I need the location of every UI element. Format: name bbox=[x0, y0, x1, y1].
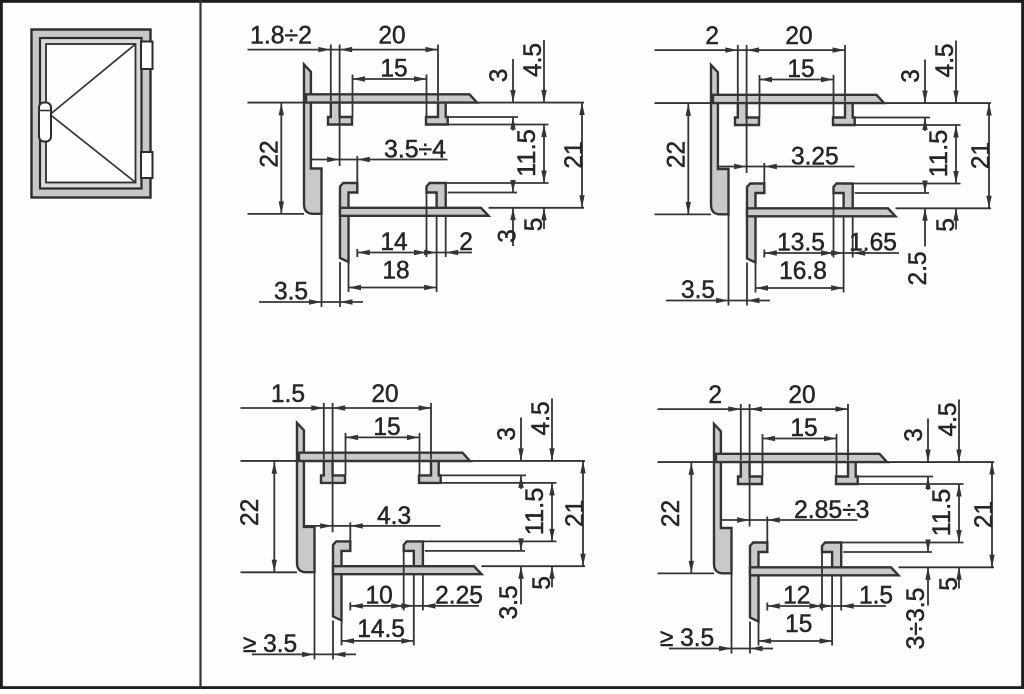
svg-text:16.8: 16.8 bbox=[779, 257, 827, 285]
Q2 top-right: top profile right hook bbox=[833, 102, 855, 125]
svg-text:4.5: 4.5 bbox=[934, 402, 962, 436]
Q3 bottom-left: dimension 11.5 bbox=[521, 483, 555, 542]
svg-text:22: 22 bbox=[663, 141, 691, 168]
Q4 bottom-right: dimension 4.5 bbox=[934, 400, 962, 497]
Q3 bottom-left: top profile right hook bbox=[419, 460, 441, 483]
Q3 bottom-left: dimension 3.5 (lip to rail gap) bbox=[495, 538, 524, 619]
Q1 top-left: bottom profile right hook bbox=[427, 183, 446, 209]
svg-text:13.5: 13.5 bbox=[777, 229, 825, 257]
Q1 top-left: top profile right hook bbox=[426, 102, 448, 125]
Q2 top-right: dimension 2.5 (lip to rail gap) bbox=[904, 181, 932, 286]
svg-text:3: 3 bbox=[900, 428, 928, 442]
svg-text:2.85÷3: 2.85÷3 bbox=[794, 496, 870, 524]
Q4 bottom-right: top profile left hook bbox=[738, 461, 762, 484]
svg-text:15: 15 bbox=[787, 55, 814, 83]
svg-text:3: 3 bbox=[897, 69, 925, 83]
svg-text:20: 20 bbox=[788, 381, 815, 409]
svg-text:21: 21 bbox=[967, 142, 995, 169]
Q3 bottom-left: bottom profile horizontal rail bbox=[333, 566, 482, 574]
svg-text:4.3: 4.3 bbox=[377, 502, 411, 530]
window icon: top hinge bbox=[141, 42, 153, 70]
svg-text:3.5: 3.5 bbox=[274, 278, 308, 306]
svg-text:15: 15 bbox=[785, 610, 812, 638]
Q2 top-right: dimension 2 and 20 (row 1) bbox=[655, 22, 846, 173]
Q2 top-right: dimension 5 (bottom right) bbox=[932, 208, 960, 231]
Q4 bottom-right: bottom profile left arm with hook cap bbox=[750, 543, 767, 622]
Q1 top-left: bottom profile horizontal rail bbox=[340, 208, 489, 216]
svg-text:3: 3 bbox=[485, 69, 513, 83]
Q4 bottom-right: dimension 22 (left height) bbox=[657, 462, 714, 573]
vertical divider line bbox=[199, 0, 201, 689]
svg-text:22: 22 bbox=[236, 499, 264, 526]
Q1 top-left: dimension 1.8÷2 and 20 (row 1) bbox=[248, 22, 439, 167]
Q3 bottom-left: dimension 3 (top hook gap) bbox=[493, 417, 524, 489]
Q1 top-left: dimension 5 (bottom right) bbox=[520, 208, 548, 231]
Q2 top-right: dimension 11.5 bbox=[925, 125, 959, 184]
window icon: outer frame bbox=[32, 30, 151, 198]
svg-text:4.5: 4.5 bbox=[931, 43, 959, 77]
Q2 top-right: dimension 3 (top hook gap) bbox=[897, 60, 928, 132]
svg-text:2.5: 2.5 bbox=[904, 251, 932, 285]
Q1 top-left: dimension 15 (top) bbox=[353, 55, 427, 118]
svg-text:1.65: 1.65 bbox=[849, 229, 897, 257]
svg-text:≥ 3.5: ≥ 3.5 bbox=[243, 630, 297, 658]
Q4 bottom-right: top profile horizontal rail bbox=[716, 454, 887, 462]
svg-text:14: 14 bbox=[380, 228, 407, 256]
svg-text:18: 18 bbox=[382, 257, 409, 285]
Q4 bottom-right: dimension 15 bbox=[759, 610, 833, 646]
Q3 bottom-left: dimension 14.5 bbox=[342, 615, 414, 646]
window icon: bottom hinge bbox=[141, 152, 153, 178]
svg-text:22: 22 bbox=[657, 500, 685, 527]
Q1 top-left: extension lines right side bbox=[306, 103, 584, 208]
Q2 top-right: left glazing strip profile bbox=[711, 65, 729, 214]
svg-text:1.8÷2: 1.8÷2 bbox=[250, 22, 312, 50]
Q1 top-left: dimension 3.5÷4 (middle gap) bbox=[311, 136, 448, 184]
svg-text:5: 5 bbox=[932, 218, 960, 232]
Q1 top-left: top profile left hook bbox=[328, 102, 352, 125]
svg-text:3: 3 bbox=[494, 229, 522, 243]
Q1 top-left: dimension 3 (lip to rail gap) bbox=[494, 180, 522, 246]
Q2 top-right: top profile horizontal rail bbox=[713, 95, 884, 103]
svg-text:22: 22 bbox=[256, 140, 284, 167]
Q3 bottom-left: left glazing strip profile bbox=[297, 423, 315, 572]
svg-text:11.5: 11.5 bbox=[513, 129, 541, 177]
Q1 top-left: dimension 4.5 bbox=[519, 40, 547, 137]
svg-text:3.5: 3.5 bbox=[495, 585, 523, 619]
svg-text:2: 2 bbox=[459, 228, 473, 256]
svg-text:2: 2 bbox=[708, 381, 722, 409]
Q2 top-right: dimension 15 (top) bbox=[760, 55, 834, 118]
Q2 top-right: dimensions 13.5 and 1.65 bbox=[764, 194, 899, 293]
svg-text:2: 2 bbox=[705, 22, 719, 50]
Q4 bottom-right: dimension 3 (top hook gap) bbox=[900, 419, 931, 491]
svg-text:21: 21 bbox=[561, 500, 589, 527]
svg-text:10: 10 bbox=[366, 581, 393, 609]
Q1 top-left: top profile horizontal rail bbox=[306, 94, 477, 102]
Q4 bottom-right: dimension 11.5 bbox=[928, 484, 962, 543]
svg-text:20: 20 bbox=[785, 22, 812, 50]
Q4 bottom-right: left glazing strip profile bbox=[714, 424, 732, 573]
Q2 top-right: extension lines right side bbox=[713, 103, 991, 208]
Q4 bottom-right: dimension 15 (top) bbox=[763, 414, 837, 477]
svg-text:5: 5 bbox=[528, 576, 556, 590]
Q2 top-right: dimension 22 (left height) bbox=[655, 103, 712, 214]
svg-text:15: 15 bbox=[373, 413, 400, 441]
Q3 bottom-left: bottom profile left arm with hook cap bbox=[333, 541, 350, 620]
Q1 top-left: dimension 3 (top hook gap) bbox=[485, 59, 516, 131]
Q1 top-left: dimension 3.5 (bottom gap) bbox=[259, 214, 363, 307]
Q1 top-left: dimension 22 (left height) bbox=[248, 103, 305, 214]
svg-text:4.5: 4.5 bbox=[527, 401, 555, 435]
Q3 bottom-left: dimension &#8805; 3.5 (bottom gap) bbox=[243, 572, 356, 659]
Q4 bottom-right: dimension 2 and 20 (row 1) bbox=[658, 381, 849, 527]
Q3 bottom-left: dimensions 10 and 2.25 bbox=[350, 551, 483, 645]
Q4 bottom-right: dimension 21 (right height) bbox=[970, 462, 998, 567]
svg-text:5: 5 bbox=[935, 577, 963, 591]
Q3 bottom-left: dimension 4.5 bbox=[527, 398, 555, 495]
Q1 top-left: dimension 11.5 bbox=[513, 125, 547, 184]
Q3 bottom-left: dimension 4.3 (middle gap) bbox=[304, 502, 441, 542]
Q3 bottom-left: dimension 5 (bottom right) bbox=[528, 566, 556, 589]
Q2 top-right: dimension 21 (right height) bbox=[967, 103, 995, 208]
Q2 top-right: top profile left hook bbox=[735, 102, 759, 125]
Q4 bottom-right: dimension 5 (bottom right) bbox=[935, 567, 963, 591]
svg-text:2.25: 2.25 bbox=[435, 581, 483, 609]
Q4 bottom-right: bottom profile right hook bbox=[822, 543, 841, 569]
svg-text:3.5: 3.5 bbox=[681, 276, 715, 304]
Q1 top-left: bottom profile left arm with hook cap bbox=[340, 183, 357, 262]
Q4 bottom-right: dimension 2.85÷3 (middle gap) bbox=[721, 496, 870, 543]
Q2 top-right: dimension 4.5 bbox=[931, 41, 959, 138]
Q4 bottom-right: dimension 3÷3.5 (lip to rail gap) bbox=[902, 540, 931, 650]
Q4 bottom-right: top profile right hook bbox=[836, 461, 858, 484]
svg-text:20: 20 bbox=[371, 380, 398, 408]
Q3 bottom-left: bottom profile right hook bbox=[404, 541, 423, 567]
Q3 bottom-left: top profile left hook bbox=[321, 460, 345, 483]
Q2 top-right: bottom profile horizontal rail bbox=[747, 208, 896, 216]
svg-text:3÷3.5: 3÷3.5 bbox=[902, 588, 930, 650]
svg-text:5: 5 bbox=[520, 218, 548, 232]
window icon: handle bbox=[39, 103, 51, 142]
Q1 top-left: dimension 21 (right height) bbox=[560, 103, 588, 208]
Q3 bottom-left: dimension 1.5 and 20 (row 1) bbox=[241, 380, 432, 533]
svg-text:15: 15 bbox=[790, 414, 817, 442]
Q2 top-right: dimension 16.8 bbox=[756, 257, 844, 293]
svg-text:11.5: 11.5 bbox=[925, 130, 953, 178]
Q2 top-right: bottom profile right hook bbox=[834, 184, 853, 210]
Q2 top-right: dimension 3.5 (bottom gap) bbox=[666, 215, 770, 306]
svg-text:11.5: 11.5 bbox=[928, 489, 956, 537]
svg-text:3.5÷4: 3.5÷4 bbox=[384, 136, 446, 164]
Q3 bottom-left: dimension 21 (right height) bbox=[561, 461, 589, 566]
Q3 bottom-left: dimension 15 (top) bbox=[346, 413, 420, 476]
window icon: sash inner line bbox=[46, 44, 136, 183]
Q1 top-left: dimension 18 bbox=[349, 257, 437, 293]
Q1 top-left: left glazing strip profile bbox=[304, 65, 322, 214]
svg-text:1.5: 1.5 bbox=[859, 582, 893, 610]
Q4 bottom-right: bottom profile horizontal rail bbox=[750, 567, 899, 575]
Q4 bottom-right: extension lines right side bbox=[716, 462, 994, 567]
Q2 top-right: dimension 3.25 (middle gap) bbox=[718, 143, 855, 184]
Q3 bottom-left: extension lines right side bbox=[299, 461, 585, 566]
svg-text:1.5: 1.5 bbox=[271, 380, 305, 408]
svg-text:3.25: 3.25 bbox=[791, 143, 839, 171]
Q3 bottom-left: dimension 22 (left height) bbox=[236, 461, 297, 572]
svg-text:12: 12 bbox=[783, 582, 810, 610]
svg-text:14.5: 14.5 bbox=[357, 615, 405, 643]
svg-text:≥ 3.5: ≥ 3.5 bbox=[660, 624, 714, 652]
window icon: frame inner edge / sash outer band bbox=[40, 38, 142, 189]
Q3 bottom-left: top profile horizontal rail bbox=[299, 453, 470, 461]
svg-text:11.5: 11.5 bbox=[521, 488, 549, 536]
svg-text:3: 3 bbox=[493, 427, 521, 441]
Q4 bottom-right: dimension &#8805; 3.5 (bottom gap) bbox=[660, 574, 773, 654]
svg-text:21: 21 bbox=[970, 501, 998, 528]
Q1 top-left: dimensions 14 and 2 bbox=[357, 193, 473, 292]
svg-text:21: 21 bbox=[560, 141, 588, 168]
svg-text:15: 15 bbox=[380, 55, 407, 83]
svg-text:20: 20 bbox=[378, 22, 405, 50]
window icon: opening direction diagonals bbox=[50, 45, 135, 183]
svg-text:4.5: 4.5 bbox=[519, 43, 547, 77]
Q2 top-right: bottom profile left arm with hook cap bbox=[747, 184, 764, 263]
Q4 bottom-right: dimensions 12 and 1.5 bbox=[767, 553, 893, 646]
